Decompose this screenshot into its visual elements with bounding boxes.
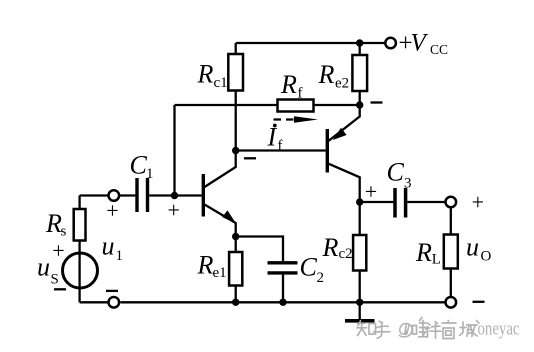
svg-text:S: S bbox=[51, 272, 59, 288]
svg-text:R: R bbox=[45, 209, 62, 238]
resistor Rc1 bbox=[235, 43, 237, 54]
label Rf bbox=[280, 70, 303, 102]
svg-text:L: L bbox=[432, 252, 441, 268]
svg-text:oneyac: oneyac bbox=[478, 320, 520, 340]
junction: T1 base node bbox=[171, 192, 178, 199]
svg-text:O: O bbox=[481, 249, 492, 265]
terminal output plus bbox=[446, 197, 457, 208]
label us bbox=[37, 253, 59, 288]
label minus at source bbox=[54, 288, 66, 290]
wire: top supply rail bbox=[236, 42, 386, 44]
svg-text:R: R bbox=[280, 70, 297, 99]
svg-text:+: + bbox=[106, 198, 118, 223]
junction: Re1 bottom node bbox=[232, 299, 239, 306]
capacitor C3 bbox=[393, 188, 397, 218]
label If bbox=[267, 123, 283, 155]
wire: output node to C3 bbox=[360, 201, 394, 203]
svg-text:+: + bbox=[365, 179, 377, 204]
wire: C3 to output terminal bbox=[407, 201, 445, 203]
label Rc1 bbox=[197, 60, 228, 92]
wire: emitter node to C2 bbox=[236, 237, 283, 262]
capacitor C1 bbox=[135, 178, 138, 212]
wire: C2 to bottom rail bbox=[282, 275, 284, 303]
svg-text:u: u bbox=[466, 233, 479, 262]
svg-text:CC: CC bbox=[430, 42, 448, 57]
svg-text:f: f bbox=[298, 86, 303, 102]
svg-text:C: C bbox=[130, 151, 148, 180]
terminal +Vcc bbox=[385, 38, 396, 49]
svg-text:e1: e1 bbox=[213, 265, 227, 281]
junction: T1 emitter node bbox=[232, 233, 239, 240]
svg-text:u: u bbox=[37, 253, 50, 282]
label Re1 bbox=[197, 251, 227, 282]
junction: T2 emitter node bbox=[356, 101, 363, 108]
label uO bbox=[466, 233, 492, 265]
label Rc2 bbox=[322, 233, 353, 262]
resistor Rs bbox=[74, 209, 86, 241]
label C1 bbox=[130, 151, 154, 183]
label Rs bbox=[45, 209, 67, 240]
label plus at output node bbox=[365, 179, 377, 204]
svg-text:+: + bbox=[52, 238, 64, 263]
transistor T1 bbox=[175, 194, 202, 196]
label C3 bbox=[387, 158, 412, 192]
svg-text:C: C bbox=[387, 158, 405, 187]
label RL bbox=[415, 238, 441, 268]
label minus at T1 collector bbox=[244, 157, 256, 159]
wire: feedback line right segment bbox=[314, 104, 360, 106]
wire: input terminal to C1 bbox=[119, 194, 135, 196]
wire: feedback vertical drop to T1 base bbox=[173, 105, 175, 196]
resistor Rc2 bbox=[359, 202, 361, 235]
junction: Vcc node bbox=[356, 39, 363, 46]
resistor Re2 bbox=[359, 43, 361, 55]
label minus above input bottom terminal bbox=[106, 290, 118, 292]
wire: T1 collector to T2 base bbox=[236, 149, 326, 151]
svg-text:+: + bbox=[168, 198, 180, 223]
terminal output minus bbox=[446, 297, 457, 308]
wire: Rs to source and through to bottom rail bbox=[78, 241, 80, 303]
current arrow If (dashed) bbox=[274, 118, 294, 120]
label Re2 bbox=[318, 60, 350, 92]
terminal input plus bbox=[109, 190, 120, 201]
resistor Re1 bbox=[235, 237, 237, 253]
svg-text:R: R bbox=[197, 251, 214, 280]
transistor T2 bbox=[326, 129, 329, 173]
wire: input top from source to terminal bbox=[80, 194, 109, 196]
wire: feedback line left segment bbox=[175, 104, 278, 106]
label plus at T1 base bbox=[168, 198, 180, 223]
resistor Rf bbox=[278, 100, 314, 112]
wire: left rail top bbox=[78, 196, 80, 210]
label plus at source bbox=[52, 238, 64, 263]
svg-text:c1: c1 bbox=[214, 75, 228, 91]
svg-text:C: C bbox=[300, 253, 318, 282]
wire: bottom rail bbox=[80, 301, 446, 303]
terminal input minus bbox=[109, 297, 120, 308]
junction: T1 collector node bbox=[232, 147, 239, 154]
svg-text:R: R bbox=[318, 60, 335, 89]
capacitor C2 bbox=[268, 261, 298, 264]
svg-text:3: 3 bbox=[404, 176, 412, 192]
svg-text:+: + bbox=[472, 190, 484, 215]
junction: Rc2 bottom node bbox=[356, 299, 363, 306]
label plus below input terminal bbox=[106, 198, 118, 223]
label minus at T2 emitter bbox=[371, 101, 383, 103]
watermark zhihu bbox=[357, 317, 479, 338]
svg-text:R: R bbox=[322, 233, 339, 262]
label minus at output terminal bbox=[473, 301, 485, 303]
label plus at output terminal bbox=[472, 190, 484, 215]
label C2 bbox=[300, 253, 325, 287]
svg-text:1: 1 bbox=[116, 248, 124, 264]
ground bbox=[359, 302, 361, 319]
svg-text:2: 2 bbox=[317, 270, 325, 286]
svg-text:u: u bbox=[102, 232, 115, 261]
label +Vcc bbox=[399, 30, 449, 58]
svg-text:R: R bbox=[415, 238, 432, 267]
source us circle bbox=[63, 253, 98, 288]
svg-text:e2: e2 bbox=[335, 76, 349, 92]
wire: C1 to T1 base node bbox=[149, 194, 174, 196]
resistor RL bbox=[450, 207, 452, 234]
junction: C2 bottom node bbox=[279, 299, 286, 306]
svg-text:1: 1 bbox=[146, 166, 154, 182]
svg-text:R: R bbox=[197, 60, 214, 89]
label u1 bbox=[102, 232, 124, 265]
svg-text:c2: c2 bbox=[339, 246, 353, 262]
junction: output node bbox=[356, 198, 363, 205]
